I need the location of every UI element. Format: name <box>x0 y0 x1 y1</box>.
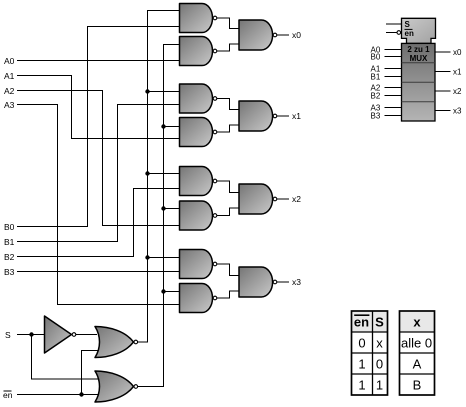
svg-text:0: 0 <box>376 356 383 371</box>
MUX wire A1 <box>371 64 402 73</box>
wire inverter output <box>76 334 97 336</box>
svg-text:A: A <box>413 356 422 371</box>
svg-text:alle 0: alle 0 <box>401 335 432 350</box>
inverter U15 <box>45 316 76 353</box>
MUX wire B3 <box>371 111 402 120</box>
junction SA/U6 <box>161 206 165 210</box>
svg-text:x2: x2 <box>453 87 462 96</box>
nor gate U9 <box>95 327 138 358</box>
svg-text:A1: A1 <box>4 71 15 81</box>
wire B0 <box>17 27 180 227</box>
wire output x2 <box>277 198 289 200</box>
MUX symbol: control box <box>402 18 436 43</box>
wire B2 <box>17 189 180 257</box>
wire net SA (NOR U10 out to gate tops) <box>138 45 180 387</box>
nor gate U10 <box>95 371 138 402</box>
MUX symbol: label en (inverted) <box>405 29 414 38</box>
junction SB/U3 <box>145 89 149 93</box>
svg-text:x1: x1 <box>292 111 301 121</box>
svg-text:x2: x2 <box>292 194 301 204</box>
svg-text:x1: x1 <box>453 67 462 76</box>
wire U4 out to U12 <box>217 125 239 132</box>
wire SA to gate U6 <box>164 208 180 210</box>
wire output x1 <box>277 115 289 117</box>
svg-text:x3: x3 <box>453 106 462 115</box>
nand gate U7 <box>180 250 217 279</box>
wire U2 out to U11 <box>217 44 239 51</box>
table row3: 1 1 <box>358 377 383 392</box>
nand gate U8 <box>180 284 217 313</box>
wire A1 <box>17 76 180 139</box>
svg-text:B1: B1 <box>371 72 381 81</box>
svg-text:x: x <box>413 314 421 329</box>
wire output x0 <box>277 34 289 36</box>
svg-text:B1: B1 <box>4 237 15 247</box>
wire SA to gate U4 <box>164 126 180 128</box>
wire A3 <box>17 105 180 305</box>
svg-text:A3: A3 <box>4 100 15 110</box>
MUX symbol: main block <box>402 43 436 121</box>
svg-text:en: en <box>405 29 414 38</box>
svg-text:B2: B2 <box>371 91 381 100</box>
wire U3 out to U12 <box>217 99 239 110</box>
svg-text:B2: B2 <box>4 252 15 262</box>
truth table right (x) <box>400 311 435 395</box>
svg-text:2 zu 1: 2 zu 1 <box>407 45 430 54</box>
nand gate U3 <box>180 84 217 113</box>
wire A2 <box>17 91 180 226</box>
nand gate U5 <box>180 167 217 196</box>
wire U7 out to U14 <box>217 264 239 276</box>
nand gate U1 <box>180 4 217 33</box>
MUX symbol: section separator 3 <box>402 101 436 103</box>
nand gate U6 <box>180 201 217 230</box>
MUX symbol: en input wire with bubble <box>386 31 401 35</box>
wire S branch to NOR U10 <box>32 335 102 380</box>
nand gate U11 (x0) <box>239 20 277 50</box>
MUX wire A2 <box>371 83 402 92</box>
MUX wire B1 <box>371 72 402 81</box>
wire U8 out to U14 <box>217 291 239 298</box>
table row2: 1 0 <box>358 356 383 371</box>
wire B1 <box>17 105 180 242</box>
junction SA/U8 <box>161 289 165 293</box>
wire SB to gate U3 <box>148 91 180 93</box>
MUX wire A3 <box>371 103 402 112</box>
nand gate U4 <box>180 118 217 147</box>
wire SA to gate U8 <box>164 291 180 293</box>
svg-text:A0: A0 <box>4 56 15 66</box>
svg-text:B: B <box>413 377 422 392</box>
svg-text:B3: B3 <box>371 111 381 120</box>
svg-text:A2: A2 <box>4 86 15 96</box>
MUX symbol: section separator 1 <box>402 62 436 64</box>
svg-text:1: 1 <box>358 377 365 392</box>
svg-text:x: x <box>376 335 383 350</box>
junction SB/U7 <box>145 255 149 259</box>
svg-text:S: S <box>375 314 384 329</box>
MUX wire x3 <box>435 106 462 115</box>
nand gate U13 (x2) <box>239 184 277 214</box>
wire S <box>17 334 45 336</box>
wire en <box>17 394 105 396</box>
junction SA/U4 <box>161 124 165 128</box>
svg-text:MUX: MUX <box>410 54 428 63</box>
junction SB/U5 <box>145 171 149 175</box>
MUX symbol: S input wire <box>386 23 402 25</box>
svg-text:0: 0 <box>358 335 365 350</box>
label en (inverted) <box>3 390 13 400</box>
table header en (inverted) <box>354 314 369 329</box>
MUX symbol: section separator 2 <box>402 81 436 83</box>
MUX wire B0 <box>371 52 402 61</box>
wire net SB (NOR U9 out to gate tops) <box>138 11 180 343</box>
junction on S <box>29 332 33 336</box>
wire output x3 <box>277 281 289 283</box>
svg-text:B0: B0 <box>371 52 381 61</box>
nand gate U12 (x1) <box>239 101 277 131</box>
svg-text:x3: x3 <box>292 277 301 287</box>
wire en branch to NOR U9 <box>82 351 102 395</box>
svg-text:x0: x0 <box>292 30 301 40</box>
MUX wire x1 <box>435 67 462 76</box>
table row1: 0 x <box>358 335 383 350</box>
svg-text:S: S <box>5 330 11 340</box>
MUX wire x2 <box>435 87 462 96</box>
svg-text:en: en <box>354 314 369 329</box>
wire SB to gate U7 <box>148 257 180 259</box>
wire B3 <box>17 271 180 273</box>
truth table left (en,S) <box>352 311 388 395</box>
MUX wire B2 <box>371 91 402 100</box>
wire U1 out to U11 <box>217 18 239 29</box>
junction on en <box>79 392 83 396</box>
svg-text:B3: B3 <box>4 267 15 277</box>
wire A0 <box>17 60 180 62</box>
MUX wire A0 <box>371 45 402 54</box>
svg-text:1: 1 <box>376 377 383 392</box>
wire SB to gate U5 <box>148 173 180 175</box>
svg-text:1: 1 <box>358 356 365 371</box>
nand gate U2 <box>180 37 217 66</box>
nand gate U14 (x3) <box>239 267 277 297</box>
wire U5 out to U13 <box>217 181 239 193</box>
svg-text:x0: x0 <box>453 48 462 57</box>
MUX wire x0 <box>435 48 462 57</box>
wire U6 out to U13 <box>217 208 239 216</box>
svg-text:B0: B0 <box>4 222 15 232</box>
